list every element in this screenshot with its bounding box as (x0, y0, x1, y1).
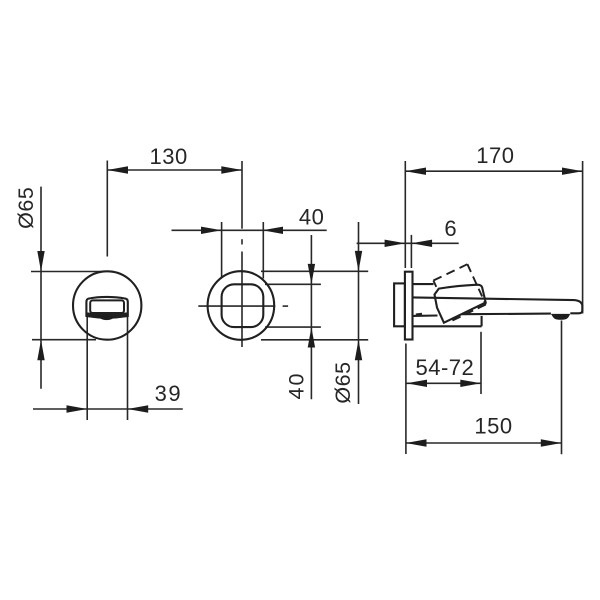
svg-text:40: 40 (285, 372, 309, 400)
svg-text:150: 150 (474, 413, 512, 438)
svg-text:6: 6 (444, 216, 457, 241)
svg-text:130: 130 (149, 144, 187, 169)
svg-text:39: 39 (155, 381, 182, 406)
svg-text:Ø65: Ø65 (14, 187, 38, 229)
svg-text:54-72: 54-72 (416, 355, 475, 380)
svg-text:40: 40 (299, 205, 324, 230)
svg-text:Ø65: Ø65 (331, 361, 355, 403)
svg-text:170: 170 (476, 143, 514, 168)
